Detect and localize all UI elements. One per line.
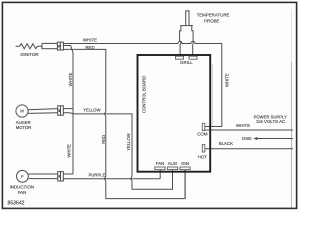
auger motor M1 circle	[16, 105, 28, 117]
svg-text:WHITE: WHITE	[68, 73, 73, 87]
svg-text:YELLOW: YELLOW	[126, 133, 131, 151]
svg-text:WHITE: WHITE	[83, 38, 97, 43]
svg-text:WHITE: WHITE	[236, 123, 250, 128]
svg-text:M: M	[20, 109, 24, 114]
wire ignitor mid pin jumper	[63, 46, 72, 50]
svg-text:RED: RED	[85, 45, 94, 50]
ignitor R1 resistor zigzag	[16, 44, 43, 49]
svg-text:MOTOR: MOTOR	[16, 125, 32, 130]
wire YELLOW auger to AUG terminal	[63, 113, 172, 189]
svg-text:AUG: AUG	[168, 161, 178, 166]
wire probe right leg	[192, 41, 195, 56]
wire probe left leg	[179, 41, 182, 56]
grill terminal left	[176, 56, 184, 59]
wire IGN terminal stub	[184, 170, 186, 199]
wire white neutral bus	[72, 49, 73, 174]
svg-text:RED: RED	[101, 135, 106, 144]
svg-text:F: F	[21, 174, 24, 179]
wire fan leads	[28, 174, 57, 179]
svg-text:FAN: FAN	[18, 190, 27, 195]
svg-text:GRILL: GRILL	[180, 60, 193, 65]
ignitor body	[42, 43, 57, 48]
wire GND to power supply	[257, 138, 293, 140]
connector J2 auger	[58, 106, 61, 115]
wire PURPLE fan to FAN terminal	[63, 178, 160, 180]
induction fan F1 circle	[17, 170, 29, 182]
FAN terminal	[155, 167, 165, 170]
wire WHITE COM to power supply	[205, 129, 293, 131]
temperature probe body	[180, 26, 194, 42]
svg-text:WHITE: WHITE	[67, 144, 72, 158]
svg-text:GND: GND	[242, 136, 252, 141]
wire auger white to bus	[63, 108, 73, 110]
svg-text:PURPLE: PURPLE	[89, 173, 106, 178]
wire WHITE ignitor to COM junction (hops over probe legs)	[63, 41, 221, 126]
wire fan white to bus	[63, 173, 73, 175]
svg-text:WHITE: WHITE	[224, 73, 229, 87]
AUG terminal	[167, 167, 177, 170]
wire AUG terminal stub	[172, 170, 174, 190]
connector J3 fan	[58, 172, 61, 181]
svg-text:PROBE: PROBE	[204, 19, 219, 24]
svg-text:IGN: IGN	[181, 161, 189, 166]
HOT terminal	[202, 145, 205, 152]
svg-text:853642: 853642	[8, 200, 25, 206]
wire FAN terminal stub	[159, 170, 161, 179]
gnd arrow head	[253, 137, 257, 140]
scan ghost of board right edge	[211, 64, 213, 127]
temperature probe flange	[180, 25, 193, 27]
svg-text:FAN: FAN	[156, 161, 165, 166]
grill terminal right	[189, 56, 197, 59]
svg-text:IGNITOR: IGNITOR	[20, 52, 38, 57]
page scan edge line right	[291, 10, 293, 62]
svg-text:TEMPERATURE: TEMPERATURE	[197, 13, 230, 18]
control board U1 outline	[138, 55, 211, 172]
COM terminal	[202, 123, 205, 130]
wire BLACK HOT to power supply	[205, 148, 293, 150]
svg-text:YELLOW: YELLOW	[83, 107, 101, 112]
IGN terminal	[180, 167, 190, 170]
svg-text:HOT: HOT	[198, 154, 208, 159]
wire auger motor leads	[28, 109, 58, 114]
wire RED ignitor to IGN terminal	[63, 49, 185, 198]
temperature probe TP1 tip	[186, 11, 189, 26]
svg-text:115 VOLTS AC: 115 VOLTS AC	[256, 119, 285, 124]
svg-text:INDUCTION: INDUCTION	[10, 185, 34, 190]
border frame	[2, 2, 296, 208]
svg-text:BLACK: BLACK	[219, 141, 233, 146]
svg-text:COM: COM	[197, 132, 208, 137]
connector J1 ignitor	[57, 42, 60, 50]
svg-text:CONTROL BOARD: CONTROL BOARD	[142, 76, 147, 113]
